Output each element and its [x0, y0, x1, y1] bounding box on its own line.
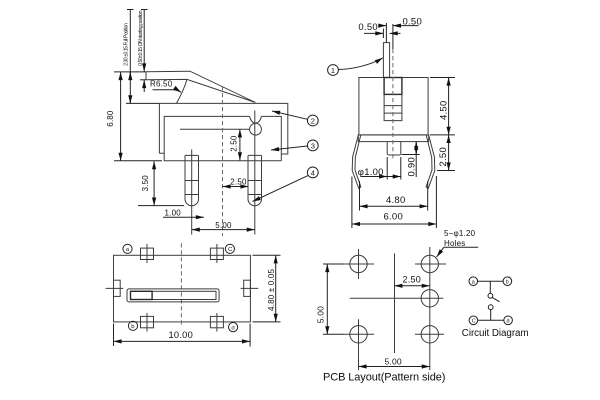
svg-text:C: C: [472, 319, 476, 325]
extension line ON position: [140, 79, 146, 81]
ext 10.00: [114, 324, 251, 347]
svg-text:1.00: 1.00: [165, 209, 182, 218]
svg-text:10.00: 10.00: [169, 330, 194, 340]
ext left 5.00: [323, 264, 344, 334]
terminal a: [123, 244, 132, 253]
svg-text:2.50: 2.50: [230, 135, 239, 152]
left side tab centerline: [106, 287, 124, 289]
svg-text:5−φ1.20: 5−φ1.20: [444, 229, 476, 238]
left pin (item 4): [185, 155, 199, 205]
svg-text:Holes: Holes: [444, 239, 465, 248]
balloon 2: [307, 115, 318, 126]
leader R6.50: [153, 90, 181, 93]
extension line lever top: [114, 71, 146, 73]
svg-text:2.50: 2.50: [403, 275, 422, 285]
dim phi 1.00: [361, 176, 387, 178]
upper contact: [488, 293, 493, 298]
long vertical reference line: [394, 253, 396, 353]
leader balloon 3: [271, 146, 307, 150]
dimension 6.80: [120, 72, 122, 161]
dashed centerline: [180, 243, 182, 324]
left pin centerline: [191, 150, 193, 235]
leader balloon 1: [338, 58, 382, 70]
pivot / right pin centerline: [254, 111, 256, 235]
balloon 3: [307, 140, 318, 151]
dimension 10.00: [114, 340, 251, 342]
svg-text:PCB Layout(Pattern side): PCB Layout(Pattern side): [323, 372, 445, 384]
left side tab: [114, 280, 121, 296]
svg-text:0.50: 0.50: [358, 22, 378, 33]
dimension 3.50: [153, 161, 155, 205]
ext peg edges: [387, 157, 401, 180]
slot in body: [384, 78, 402, 95]
lever tip edge: [145, 72, 147, 80]
svg-text:0.50±0.15 ON starting position: 0.50±0.15 ON starting position: [138, 10, 144, 66]
svg-text:0.90: 0.90: [407, 157, 418, 177]
hole bottom-right crosshair: [415, 333, 444, 335]
slider knob: [131, 291, 153, 299]
extension line body bottom: [114, 160, 162, 162]
hole bottom-left: [350, 326, 367, 343]
slot inner: [131, 291, 217, 299]
right side tab: [244, 280, 251, 296]
wire a-b: [478, 280, 504, 282]
dimension 5.00 bottom: [359, 366, 430, 368]
top tab 2: [210, 248, 223, 259]
bottom tab 2 centerline: [216, 313, 218, 332]
hole top-right: [421, 255, 438, 272]
svg-text:d: d: [507, 319, 510, 325]
terminal d: [229, 323, 238, 332]
right pin: [248, 155, 262, 205]
balloon 4: [307, 167, 318, 178]
hole bottom-left crosshair: [344, 319, 374, 370]
leader balloon 2: [272, 111, 308, 119]
bottom tab 1 centerline: [146, 313, 148, 332]
svg-text:4.50: 4.50: [439, 101, 450, 121]
wire to lower contact: [490, 310, 492, 321]
ext body top right: [430, 77, 455, 79]
hole bottom-right: [421, 326, 438, 343]
bottom tab 1: [141, 316, 154, 327]
top tab 1 centerline: [146, 244, 148, 263]
ext 4.80 bottom: [253, 321, 281, 323]
left mounting leg: [352, 135, 361, 188]
lever front R6.50 curve: [177, 79, 188, 103]
dimension 4.80: [360, 205, 428, 207]
svg-text:a: a: [472, 280, 475, 286]
terminal c: [469, 316, 478, 325]
ext 6.00: [352, 176, 437, 228]
svg-text:1: 1: [331, 66, 335, 75]
dimension 2.50: [394, 285, 430, 287]
ext peg bottom: [402, 154, 420, 156]
ext 4.80 top: [253, 254, 281, 256]
lever bottom edge: [146, 79, 255, 102]
slot lower part: [384, 94, 402, 120]
pivot circle: [250, 123, 262, 135]
wire to upper contact: [489, 281, 491, 293]
lever centerline ext: [385, 23, 387, 43]
svg-text:2: 2: [311, 116, 315, 125]
dimension 0.90: [415, 142, 417, 177]
top tab 1: [141, 248, 154, 259]
svg-text:6.80: 6.80: [106, 110, 115, 127]
hole top-left crosshair: [344, 249, 374, 279]
svg-text:2.30 ±0.15 Full Position: 2.30 ±0.15 Full Position: [123, 23, 129, 66]
pivot notch arcs: [250, 116, 262, 123]
terminal d: [504, 316, 513, 325]
svg-text:3: 3: [311, 141, 315, 150]
body dashed centerline: [392, 49, 394, 159]
tick 2.30: [127, 9, 134, 11]
svg-text:b: b: [506, 280, 509, 286]
contact lever inside: [180, 128, 250, 130]
svg-text:2.50: 2.50: [438, 147, 449, 167]
ext leg plane right: [437, 170, 455, 172]
body rectangle: [359, 78, 428, 135]
housing cover (item 2) outline: [159, 103, 287, 154]
dimension 2.50 horizontal: [223, 186, 249, 188]
dimension 1.00: [163, 216, 204, 218]
switch blade: [492, 297, 499, 301]
bottom tab 2: [210, 316, 223, 327]
ext 4.80: [360, 181, 428, 211]
center peg: [387, 142, 401, 155]
balloon 1: [328, 65, 339, 76]
svg-text:Circuit Diagram: Circuit Diagram: [462, 328, 529, 339]
body centerline solid ext: [392, 24, 394, 49]
svg-text:4.80 ± 0.05: 4.80 ± 0.05: [267, 268, 276, 311]
svg-text:4: 4: [311, 168, 315, 177]
right mounting leg: [426, 135, 435, 188]
terminal b: [128, 321, 137, 330]
leader balloon 4: [253, 175, 309, 201]
actuator rod (item 1): [383, 43, 389, 78]
svg-text:6.00: 6.00: [384, 212, 404, 223]
long horizontal through mid-right hole: [350, 297, 444, 299]
long vertical through right holes: [429, 247, 431, 370]
dim 0.50 rod width: [382, 29, 384, 39]
svg-text:C: C: [228, 247, 233, 253]
svg-text:5.00: 5.00: [385, 356, 402, 366]
dimension 6.00: [352, 223, 437, 225]
right pin ticks: [248, 181, 262, 195]
hole top-left: [350, 255, 367, 272]
wire c-d: [478, 319, 504, 321]
dimension 5.00 left: [326, 264, 328, 334]
extension line body top: [126, 102, 159, 104]
dimension 4.50: [448, 78, 450, 135]
top tab 2 centerline: [216, 244, 218, 263]
svg-text:4.80: 4.80: [386, 195, 406, 206]
svg-text:d: d: [231, 326, 234, 332]
actuator lever (item 1) top edge: [146, 71, 255, 102]
dimension 4.80 +-0.05: [275, 255, 277, 322]
leader holes: [444, 246, 478, 248]
hole top-right crosshair: [415, 263, 446, 265]
dimension 2.50 vertical: [239, 129, 241, 160]
tick 0.50: [141, 9, 148, 11]
body outline: [114, 255, 251, 322]
dim 0.50 offset: [380, 25, 387, 27]
svg-text:2.50: 2.50: [230, 177, 247, 186]
dimension 2.50: [448, 135, 450, 171]
base housing (item 3) outline: [164, 116, 281, 160]
svg-text:5.00: 5.00: [315, 306, 325, 323]
left pin ticks: [185, 181, 199, 195]
right side tab centerline: [241, 287, 259, 289]
terminal b: [503, 277, 512, 286]
terminal c: [225, 244, 234, 253]
dimension 5.00: [192, 229, 255, 231]
lower contact: [488, 305, 493, 310]
hole mid-right: [421, 290, 438, 307]
svg-text:3.50: 3.50: [141, 175, 150, 192]
ext body bottom right: [430, 134, 455, 136]
extension line pin bottom: [138, 205, 184, 207]
dimension 0.50 ON line: [143, 10, 145, 66]
base plate strip: [358, 135, 428, 142]
body dashed centerline: [222, 86, 224, 236]
svg-text:R6.50: R6.50: [150, 79, 173, 88]
dimension 2.30 full position line: [129, 10, 131, 104]
terminal a: [469, 277, 478, 286]
slot outer: [127, 289, 219, 302]
svg-text:5.00: 5.00: [215, 221, 232, 230]
